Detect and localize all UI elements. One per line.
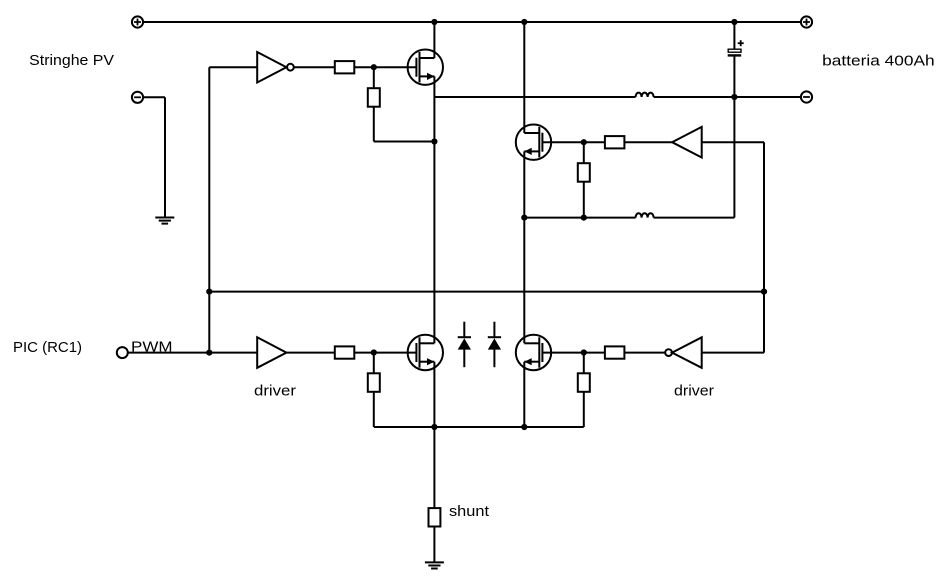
svg-text:PIC (RC1): PIC (RC1)	[13, 339, 82, 356]
svg-text:driver: driver	[674, 383, 714, 400]
svg-text:driver: driver	[254, 383, 296, 400]
svg-text:batteria 400Ah: batteria 400Ah	[822, 53, 935, 70]
svg-text:Stringhe PV: Stringhe PV	[29, 52, 114, 69]
svg-text:PWM: PWM	[131, 338, 173, 355]
svg-text:shunt: shunt	[449, 503, 490, 520]
